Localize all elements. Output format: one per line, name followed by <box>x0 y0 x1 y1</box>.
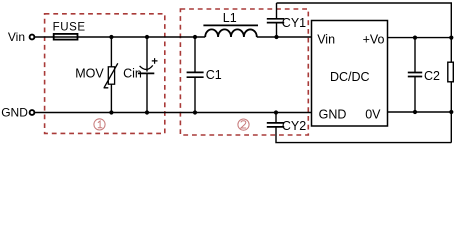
wire: 0V rail <box>388 111 452 113</box>
wire: top link from CY1 to output <box>277 3 452 38</box>
terminal GND <box>30 110 35 115</box>
dashed box 1 (input protection stage) <box>45 14 165 134</box>
inductor L1 <box>203 25 258 37</box>
node: load bottom <box>449 110 453 114</box>
varistor MOV <box>104 63 118 88</box>
wire: C2 branch <box>414 38 416 112</box>
svg-text:GND: GND <box>319 107 347 121</box>
wire: bottom link to CY2 <box>276 127 451 143</box>
node: MOV bottom <box>109 110 113 114</box>
wire: Cin branch <box>146 37 148 113</box>
fuse F (rect with line through) <box>54 34 78 40</box>
node: load top <box>449 36 453 40</box>
svg-text:CY2: CY2 <box>282 119 306 133</box>
wire: CY2 branch <box>275 113 277 123</box>
svg-text:DC/DC: DC/DC <box>330 70 370 84</box>
wire: +Vo rail <box>388 37 452 39</box>
svg-text:FUSE: FUSE <box>53 22 86 34</box>
capacitor C2 <box>408 73 422 77</box>
node: C2 top <box>413 36 417 40</box>
wire: top input rail <box>35 36 205 38</box>
svg-text:Cin: Cin <box>123 66 142 80</box>
wire: CY1 branch <box>276 3 278 37</box>
stage number 1 <box>94 119 105 130</box>
DC/DC converter block U1 <box>312 21 388 127</box>
svg-text:Vin: Vin <box>8 30 25 44</box>
svg-text:0V: 0V <box>365 107 381 121</box>
capacitor Cin (polarized) <box>138 58 158 73</box>
svg-text:C1: C1 <box>206 68 222 82</box>
svg-text:L1: L1 <box>223 11 237 25</box>
capacitor CY1 <box>267 19 284 23</box>
capacitor CY2 <box>267 123 284 127</box>
load resistor <box>448 62 454 82</box>
capacitor C1 <box>187 72 204 77</box>
terminal Vin <box>30 35 35 40</box>
dashed box 2 (filter stage) <box>180 9 308 135</box>
node: C1 bottom <box>193 110 197 114</box>
wire: MOV branch <box>110 37 112 113</box>
node: Cin top <box>145 35 149 39</box>
wire: bottom input rail <box>35 112 312 114</box>
svg-text:MOV: MOV <box>75 66 104 80</box>
wire: C1 branch <box>194 37 196 113</box>
node: MOV top <box>109 35 113 39</box>
wire: right vertical with load <box>450 38 452 143</box>
stage number 2 <box>238 119 249 130</box>
node: C2 bottom <box>413 110 417 114</box>
svg-text:CY1: CY1 <box>282 16 306 30</box>
svg-text:GND: GND <box>1 106 28 120</box>
node: Cin bottom <box>145 110 149 114</box>
svg-text:C2: C2 <box>424 69 440 83</box>
node: CY2 tap <box>274 110 278 114</box>
svg-text:+Vo: +Vo <box>363 33 385 47</box>
node: CY1 tap <box>274 35 278 39</box>
svg-text:Vin: Vin <box>317 33 335 47</box>
node: C1 top <box>193 35 197 39</box>
